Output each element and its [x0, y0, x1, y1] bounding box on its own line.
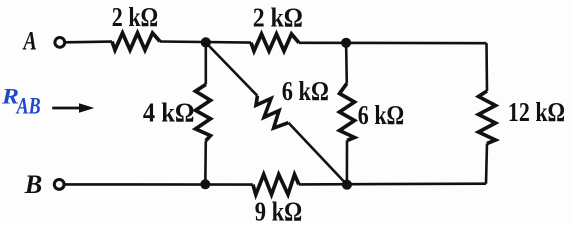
svg-text:AB: AB [15, 93, 41, 118]
svg-text:12 kΩ: 12 kΩ [508, 97, 565, 127]
svg-text:2 kΩ: 2 kΩ [253, 2, 303, 32]
svg-text:B: B [24, 170, 43, 199]
svg-text:6 kΩ: 6 kΩ [358, 100, 404, 130]
svg-text:A: A [22, 27, 37, 56]
svg-text:6 kΩ: 6 kΩ [282, 76, 329, 106]
svg-text:9 kΩ: 9 kΩ [255, 196, 303, 223]
svg-text:2 kΩ: 2 kΩ [112, 2, 158, 32]
svg-text:4 kΩ: 4 kΩ [143, 98, 195, 128]
